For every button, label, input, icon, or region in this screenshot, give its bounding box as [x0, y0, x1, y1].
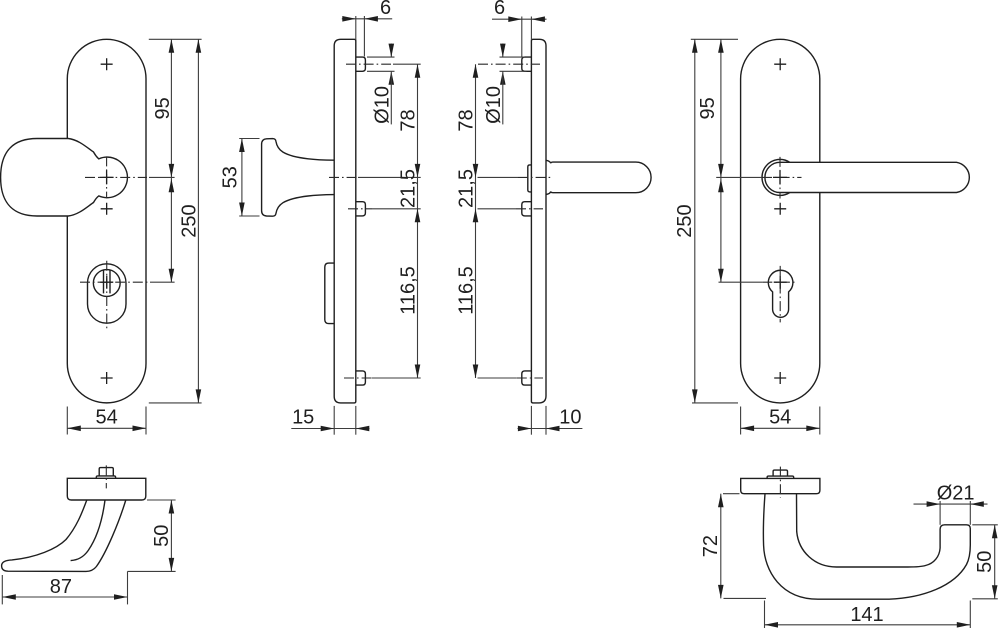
- screw boss top v3: [522, 57, 532, 71]
- ext 10 left v3: [530, 406, 532, 435]
- svg-text:Ø10: Ø10: [483, 86, 505, 124]
- dim line 10 v3: [518, 428, 583, 430]
- arrow 72 top v4: [718, 179, 724, 193]
- arrow 95 top v1: [169, 39, 175, 53]
- ext 53 bottom: [239, 215, 259, 217]
- arrow 6 right v2: [364, 16, 378, 22]
- spindle centerline v5: [105, 465, 107, 488]
- lever bar outline v4: [780, 162, 969, 192]
- rose centerline vertical v4: [779, 157, 781, 199]
- dim line 50 v5: [170, 500, 172, 571]
- arrow 21,5 bottom v2: [415, 209, 421, 223]
- knob grip outline v5: [2, 500, 126, 571]
- ext 6 right v2: [363, 16, 365, 57]
- ext dia21 left v6: [939, 501, 941, 525]
- arrow 250 top v4: [692, 39, 698, 53]
- svg-text:50: 50: [974, 551, 996, 573]
- ext dia10 top v3: [500, 56, 525, 58]
- svg-text:95: 95: [152, 97, 174, 119]
- ext 53 top: [239, 138, 259, 140]
- arrow 15 left v2: [321, 426, 335, 432]
- spindle collar v5: [96, 476, 115, 478]
- key slot left edge: [103, 270, 105, 293]
- spindle collar v6: [767, 476, 794, 478]
- ext lever axis -> dim v4: [716, 176, 762, 178]
- ext bottom boss -> dim v3: [478, 377, 517, 379]
- ext 50 bottom v5: [128, 570, 176, 572]
- ext 6 left v2: [355, 16, 357, 40]
- ext 54 left v1: [66, 407, 68, 435]
- screw boss bottom v2: [356, 371, 366, 385]
- dim line 250 v4: [694, 39, 696, 403]
- screw mark middle P4: [774, 203, 786, 215]
- ext lever axis -> dim v3: [478, 176, 519, 178]
- ext dia10 top v2: [367, 56, 395, 58]
- centerline lever axis v3 (dash-dot): [518, 176, 552, 178]
- svg-text:95: 95: [697, 97, 719, 119]
- arrow 250 bottom v4: [692, 389, 698, 403]
- rose tab left side v3: [528, 165, 532, 192]
- plate P1 outline (stadium), left edge interrupted by knob: [67, 39, 146, 403]
- svg-text:141: 141: [850, 604, 883, 626]
- ext 87 right v5: [127, 571, 129, 604]
- arrow 10 left v3: [518, 426, 532, 432]
- arrow 6 left v2: [342, 16, 356, 22]
- spindle centerline v6: [779, 467, 781, 498]
- svg-text:6: 6: [380, 0, 391, 19]
- arrow 141 left v6: [765, 622, 779, 628]
- cylinder center mark v4: [774, 276, 787, 289]
- dim line 50 v6: [994, 525, 996, 599]
- dia10 lower tail v2: [390, 71, 392, 124]
- arrow 54 left v4: [741, 426, 755, 432]
- rose center mark v4: [773, 170, 787, 184]
- svg-text:15: 15: [292, 407, 314, 429]
- ext 54 right v1: [145, 407, 147, 435]
- ext 50 top v5: [147, 499, 176, 501]
- arrow dia21 left v6: [927, 501, 941, 507]
- dim line 72 v6: [720, 494, 722, 599]
- ext 72 top v6: [723, 493, 740, 495]
- ext 54 left v4: [740, 407, 742, 435]
- screw boss middle v3: [522, 202, 532, 216]
- cylinder cover side bump v2: [325, 263, 334, 324]
- knob center mark: [100, 170, 114, 184]
- screw mark middle P1: [101, 203, 113, 215]
- ext dia10 bottom v3: [500, 70, 527, 72]
- arrow 72 top v6: [718, 494, 724, 508]
- screw mark bottom P1: [101, 372, 113, 384]
- dim line chain v2: [417, 64, 419, 378]
- centerline middle boss v2 (dash-dot): [348, 208, 372, 210]
- arrow 72 bottom v4: [718, 269, 724, 283]
- centerline knob axis v2 (dash-dot): [329, 176, 357, 178]
- ext 15 left v2: [333, 406, 335, 435]
- arrow 54 right v4: [806, 426, 820, 432]
- svg-text:78: 78: [398, 109, 420, 131]
- arrow 95 bottom v4: [718, 164, 724, 178]
- arrow 78 top v2: [415, 64, 421, 78]
- ext knob axis -> dim v2: [358, 176, 421, 178]
- arrow 116,5 bottom v2: [415, 365, 421, 379]
- arrow 54 left v1: [67, 426, 81, 432]
- ext plate top -> dims v4: [691, 38, 738, 40]
- ext plate bottom -> dim v4: [692, 402, 738, 404]
- arrow 95 bottom v1: [169, 164, 175, 178]
- screw boss middle v2: [356, 202, 366, 216]
- svg-text:72: 72: [700, 535, 722, 557]
- arrow 53 top: [239, 139, 245, 153]
- ext bottom boss axis -> dim v2: [372, 377, 421, 379]
- plate P3 side outline, right edge interrupted by lever: [531, 39, 546, 403]
- ext line plate bottom -> dim v1: [149, 402, 202, 404]
- dia10 lower tail v3: [502, 71, 504, 124]
- dim line chain v3: [475, 64, 477, 378]
- screw boss bottom v3: [522, 371, 532, 385]
- arrow 72 bottom v6: [718, 585, 724, 599]
- arrow 10 right v3: [546, 426, 560, 432]
- dim line 15 v2: [291, 428, 369, 430]
- ext 15 right v2: [355, 406, 357, 435]
- knob K2 side profile (trumpet): [262, 139, 335, 217]
- ext top boss axis -> dim v2: [393, 63, 421, 65]
- ext middle boss -> dim v3: [478, 208, 517, 210]
- screw boss top v2: [356, 57, 366, 71]
- svg-text:250: 250: [179, 204, 201, 237]
- ext 6 left v3: [521, 17, 523, 58]
- svg-text:116,5: 116,5: [398, 266, 420, 315]
- arrow dia10 top v2: [389, 44, 395, 58]
- arrow 78 top v3: [473, 64, 479, 78]
- arrow 87 right v5: [114, 594, 128, 600]
- cylinder centerline horizontal v1: [80, 281, 148, 283]
- dim line dia21 v6: [914, 503, 988, 505]
- svg-text:87: 87: [50, 576, 72, 598]
- svg-text:53: 53: [219, 166, 241, 188]
- ext dia10 bottom v2: [367, 70, 395, 72]
- cylinder centerline vertical v1: [106, 261, 108, 329]
- dim line 54 v1: [67, 427, 146, 429]
- key slot right edge: [109, 270, 111, 293]
- ext 54 right v4: [819, 407, 821, 435]
- ext 87 left v5: [1, 575, 3, 604]
- svg-text:54: 54: [769, 407, 791, 429]
- centerline middle boss v3 (dash-dot): [516, 208, 543, 210]
- ext 50 top v6: [972, 524, 998, 526]
- cylinder hole outline v4: [768, 270, 793, 317]
- svg-text:10: 10: [559, 407, 581, 429]
- arrow 116,5 bottom v3: [473, 365, 479, 379]
- svg-text:Ø21: Ø21: [937, 482, 975, 504]
- ext dia21 right v6: [969, 501, 971, 525]
- cylinder center mark v1: [100, 276, 113, 289]
- ext line knob axis -> dim v1: [149, 176, 175, 178]
- arrow 250 top v1: [196, 39, 202, 53]
- arrow dia10 bottom v3: [500, 71, 506, 85]
- knob K1 front view (body + neck bump): [1, 139, 128, 217]
- ext cylinder axis -> dim v4: [719, 281, 763, 283]
- dia10 upper tail v2: [390, 44, 392, 58]
- centerline bottom boss v3 (dash-dot): [517, 377, 543, 379]
- dim line 250 v1: [197, 39, 199, 403]
- ext 72 bottom v6: [724, 597, 767, 599]
- arrow 87 left v5: [2, 594, 16, 600]
- arrow 53 bottom: [239, 203, 245, 217]
- dim line 141 v6: [765, 624, 971, 626]
- arrow 95 top v4: [718, 39, 724, 53]
- arrow 250 bottom v1: [196, 389, 202, 403]
- knob centerline vertical (dash-dot): [106, 156, 108, 198]
- svg-text:21,5: 21,5: [456, 169, 478, 208]
- svg-text:54: 54: [96, 407, 118, 429]
- cylinder circle view1: [93, 270, 120, 297]
- lever flange v6: [741, 478, 820, 493]
- screw mark top P4: [774, 58, 786, 70]
- arrow 54 right v1: [133, 426, 147, 432]
- arrow 6 left v3: [508, 16, 522, 22]
- dim line 95/72 chain v4: [720, 39, 722, 282]
- svg-text:6: 6: [494, 0, 505, 19]
- dim line 87 v5: [2, 596, 127, 598]
- dim line 6 v2: [342, 18, 392, 20]
- knob centerline horizontal (dash-dot): [85, 176, 147, 178]
- plate P2 side outline, left edge interrupted by knob neck: [334, 39, 356, 403]
- arrow dia10 bottom v2: [389, 71, 395, 85]
- ext line plate top -> dims v1: [149, 38, 202, 40]
- dim line 53: [241, 139, 243, 217]
- lever bar white fill v4 (covers plate edge): [765, 162, 969, 192]
- arrow dia21 right v6: [970, 501, 984, 507]
- lever L3 side profile: [546, 160, 651, 194]
- ext middle boss axis -> dim v2: [372, 208, 421, 210]
- lever handle U-shape outline v6: [763, 494, 970, 600]
- ext 141 left v6: [764, 601, 766, 628]
- svg-text:Ø10: Ø10: [372, 86, 394, 124]
- ext 50 bottom v6: [972, 598, 998, 600]
- arrow dia10 top v3: [500, 44, 506, 58]
- svg-text:116,5: 116,5: [456, 266, 478, 315]
- arrow 50 bottom v6: [992, 585, 998, 599]
- svg-text:250: 250: [674, 204, 696, 237]
- arrow 78 bottom v3: [473, 164, 479, 178]
- arrow 50 top v5: [169, 500, 175, 514]
- knob grip middle contour v5: [71, 500, 105, 561]
- cylinder cover hole view1: outer oval: [88, 264, 127, 323]
- dim line 54 v4: [741, 427, 820, 429]
- cylinder centerline horizontal v4: [762, 281, 795, 283]
- arrow 50 top v6: [992, 525, 998, 539]
- arrow 21,5 bottom v3: [473, 209, 479, 223]
- svg-text:21,5: 21,5: [398, 169, 420, 208]
- dia10 upper tail v3: [502, 44, 504, 58]
- screw mark top P1: [101, 58, 113, 70]
- spindle nub v5: [99, 468, 113, 476]
- rose outer arc v4: [762, 159, 790, 195]
- svg-text:50: 50: [151, 525, 173, 547]
- plate P4 outline (stadium), right edge interrupted by lever bar: [741, 39, 820, 403]
- ext 141 right v6: [969, 601, 971, 628]
- arrow 78 bottom v2: [415, 164, 421, 178]
- dim line 6 v3: [492, 18, 547, 20]
- rose centerline horizontal v4: [762, 176, 802, 178]
- svg-text:78: 78: [456, 109, 478, 131]
- dim line 95/72 chain v1: [170, 39, 172, 282]
- centerline bottom boss v2 (dash-dot): [344, 377, 372, 379]
- centerline top boss v2 (dash-dot): [346, 63, 391, 65]
- rose inner arc v4: [765, 162, 780, 192]
- ext 10 right v3: [545, 406, 547, 435]
- spindle nub v6: [773, 470, 787, 476]
- centerline top boss v3 (dash-dot): [478, 63, 540, 65]
- arrow 6 right v3: [531, 16, 545, 22]
- ext line cylinder axis -> dim v1: [150, 281, 175, 283]
- knob flange v5: [67, 478, 146, 500]
- ext 6 right v3: [530, 17, 532, 41]
- cylinder centerline vertical v4: [779, 266, 781, 323]
- screw mark bottom P4: [774, 372, 786, 384]
- arrow 15 right v2: [356, 426, 370, 432]
- arrow 141 right v6: [957, 622, 971, 628]
- arrow 72 bottom v1: [169, 269, 175, 283]
- arrow 72 top v1: [169, 179, 175, 193]
- arrow 50 bottom v5: [169, 558, 175, 572]
